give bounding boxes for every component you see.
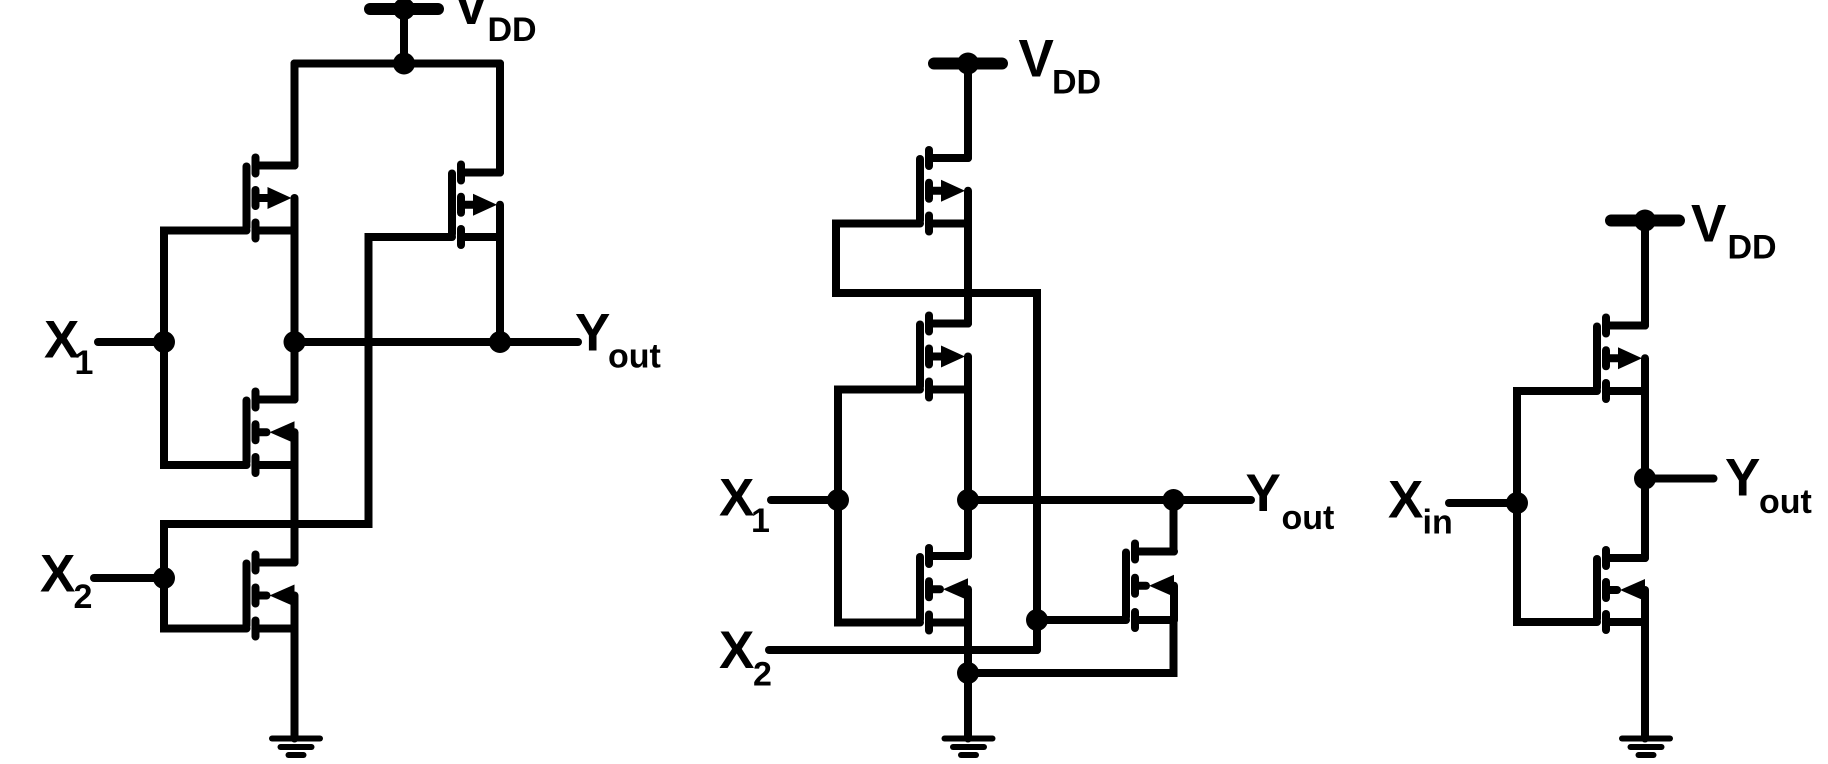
svg-text:V: V <box>1691 195 1726 254</box>
transistor M7 (NMOS) <box>920 548 968 631</box>
node Yout (left) <box>489 331 511 353</box>
node X1 <box>153 331 175 353</box>
label Xin <box>1388 471 1453 542</box>
svg-text:V: V <box>1019 30 1054 89</box>
node ground junction (middle) <box>957 662 979 684</box>
wire rail to M1 drain <box>291 64 299 166</box>
label VDD (right) <box>1691 195 1777 267</box>
wire output line to Yout (middle) <box>968 496 1251 504</box>
transistor M5 (PMOS) <box>920 150 968 232</box>
transistor M2 (PMOS) <box>452 165 500 246</box>
wire Yout node to M8 drain <box>1170 500 1178 552</box>
wire output line to Yout <box>295 338 579 346</box>
wire X1 input lead (middle) <box>771 496 838 504</box>
wire M1 source to output node <box>291 231 299 343</box>
svg-text:DD: DD <box>1728 229 1777 267</box>
transistor M6 (PMOS) <box>920 316 968 398</box>
svg-text:in: in <box>1423 504 1453 542</box>
wire Yout lead (right) <box>1645 475 1714 483</box>
wire M3 source to M4 drain <box>291 465 299 563</box>
wire M9 source to output node <box>1641 391 1649 479</box>
transistor M9 (PMOS) <box>1597 318 1645 400</box>
wire M8 source to ground node <box>968 620 1174 673</box>
wire rail to M2 drain <box>496 64 504 173</box>
svg-text:Y: Y <box>575 304 610 363</box>
wire M2 source to output <box>496 237 504 342</box>
wire X2 input lead (middle) <box>769 646 1037 654</box>
wire M4 source to ground <box>291 629 299 739</box>
svg-text:2: 2 <box>753 656 772 694</box>
node Yout (middle) <box>1163 489 1185 511</box>
svg-text:X: X <box>40 545 75 604</box>
wire VDD stem (left) <box>400 9 408 64</box>
wire M6 source to output node <box>964 390 972 501</box>
svg-text:X: X <box>719 469 754 528</box>
wire M5 source to M6 drain <box>964 224 972 324</box>
svg-text:V: V <box>454 0 489 36</box>
wire M10 source to ground <box>1641 622 1649 739</box>
wire Xin input lead <box>1449 499 1517 507</box>
svg-text:2: 2 <box>74 578 93 616</box>
node X1 (middle) <box>827 489 849 511</box>
power VDD symbol <box>934 53 1002 75</box>
label Yout (left) <box>575 304 661 376</box>
wire M5 gate to X2 riser <box>836 224 1037 651</box>
svg-text:Y: Y <box>1725 449 1760 508</box>
svg-text:out: out <box>1282 499 1335 537</box>
transistor M4 (NMOS) <box>247 555 295 637</box>
wire X1 node to M3 gate <box>164 342 247 465</box>
wire VDD stem to M5 drain <box>964 64 972 159</box>
ground <box>945 739 993 756</box>
wire output node to M3 drain <box>291 342 299 400</box>
svg-text:DD: DD <box>488 11 537 49</box>
transistor M10 (NMOS) <box>1597 550 1645 630</box>
svg-text:1: 1 <box>751 502 770 540</box>
ground <box>1622 739 1670 756</box>
node output (M1 source / M3 drain) <box>284 331 306 353</box>
label VDD (left) <box>454 0 537 49</box>
svg-text:out: out <box>608 338 661 376</box>
wire ground stem (middle) <box>964 673 972 739</box>
label Yout (middle) <box>1246 464 1335 537</box>
node Yout (right) <box>1634 468 1656 490</box>
node output (middle) <box>957 489 979 511</box>
label X1 (middle) <box>719 469 770 541</box>
power VDD symbol <box>1611 210 1679 232</box>
transistor M8 (NMOS) <box>1126 544 1174 629</box>
node X2 / M8 gate junction <box>1026 609 1048 631</box>
label X2 (middle) <box>719 621 772 694</box>
svg-text:DD: DD <box>1052 64 1101 102</box>
label X1 <box>44 311 93 383</box>
node Xin <box>1506 492 1528 514</box>
label VDD (middle) <box>1019 30 1102 102</box>
node VDD rail junction <box>393 53 415 75</box>
wire X2 input lead <box>94 574 164 582</box>
svg-text:X: X <box>1388 471 1423 530</box>
power VDD symbol <box>370 0 438 20</box>
svg-text:X: X <box>719 621 754 680</box>
wire M6 gate to X1 node <box>838 390 920 501</box>
svg-text:Y: Y <box>1246 464 1281 523</box>
wire VDD rail (left) <box>295 60 501 68</box>
label Yout (right) <box>1725 449 1812 522</box>
wire X2 node to M4 gate <box>164 578 247 629</box>
transistor M1 (PMOS) <box>247 158 295 239</box>
ground <box>272 739 320 756</box>
wire M7 source to ground node <box>964 623 972 674</box>
svg-text:1: 1 <box>75 344 94 382</box>
wire X1 input lead <box>98 338 164 346</box>
transistor M3 (NMOS) <box>247 392 295 474</box>
wire M1 gate to X1 node <box>164 231 247 343</box>
wire output node to M10 drain <box>1641 479 1649 559</box>
svg-text:out: out <box>1759 483 1812 521</box>
wire output node to M7 drain <box>964 500 972 556</box>
wire VDD stem to M9 drain <box>1641 221 1649 326</box>
label X2 <box>40 545 92 617</box>
wire X1 node to M7 gate <box>838 500 920 623</box>
wire Xin node to M10 gate <box>1517 503 1597 622</box>
wire junction to M8 gate <box>1037 616 1126 624</box>
wire M2 gate to X2 node <box>164 237 452 578</box>
node X2 <box>153 567 175 589</box>
wire M9 gate to Xin node <box>1517 391 1597 503</box>
